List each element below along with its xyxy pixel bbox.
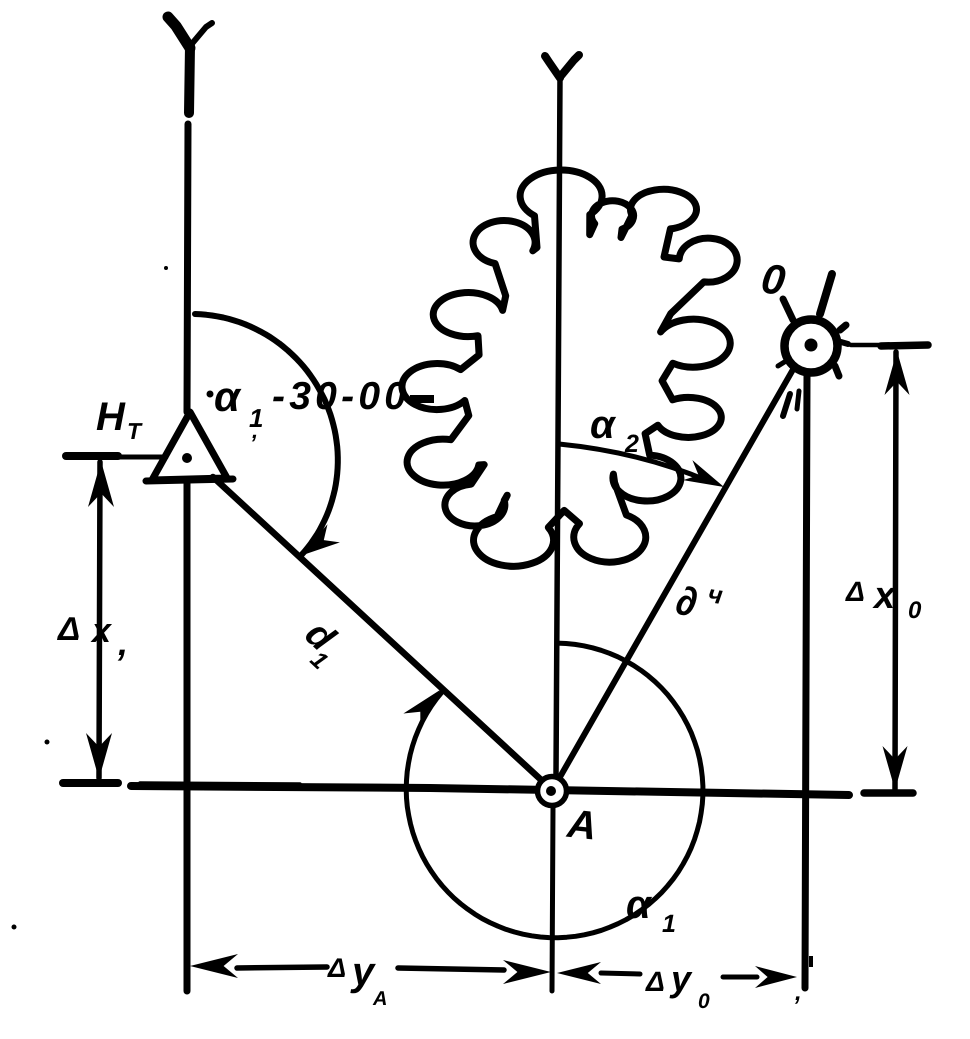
full directional angle arc alpha1 around A [406,643,703,938]
bush / shrub topographic symbol (scalloped outline) [402,170,737,566]
svg-text:x: x [90,612,113,650]
svg-text:,: , [794,979,802,1006]
angle arc alpha1=30-00 at triangle [195,314,338,556]
vertical line below landmark O [805,375,807,988]
dy_A left arrow [190,954,238,978]
angle arc alpha2 at A [559,444,708,481]
alpha1 big arc arrowhead [403,690,440,729]
tick line from dx_p to triangle level [118,455,166,460]
tree twigs [820,274,832,314]
dx_o up arrow [885,351,910,395]
dx_o down arrow [883,746,908,790]
alpha2 arc arrowhead [683,460,724,487]
stray scan specks [12,925,17,930]
svg-text:0: 0 [908,597,922,624]
baseline left tick (dx_p end) [63,779,118,787]
baseline double-stroke patch [140,783,300,784]
dx_p top tick [66,452,118,460]
dimension dy_A horizontal line [237,967,327,968]
dimension dy_o horizontal line [601,973,640,974]
left coordinate grid line (vertical) [189,46,190,113]
svg-text:,: , [251,418,258,443]
left line north fork arrow [168,17,190,48]
svg-text:0: 0 [698,990,710,1013]
svg-text:α: α [626,883,653,927]
svg-text:α: α [214,373,242,420]
svg-text:y: y [669,958,693,999]
svg-text:T: T [127,418,143,444]
svg-text:,: , [117,622,128,663]
horizontal baseline through A [131,786,849,795]
svg-text:x: x [872,575,897,617]
svg-text:Δ: Δ [645,966,665,997]
svg-text:Δ: Δ [56,610,80,647]
dimension dx_o vertical line [895,352,896,789]
dx_p up arrow [88,461,114,507]
svg-text:A: A [564,802,598,849]
triangle center dot [182,453,192,463]
svg-text:2: 2 [624,430,639,458]
tick link from O to dx_o [851,343,879,348]
alpha1 arc arrowhead [301,524,340,556]
survey station triangle H_T [152,412,227,480]
svg-text:Δ: Δ [845,576,865,607]
dx_o top tick [881,345,928,346]
center line north fork arrow [545,56,560,78]
center coordinate grid line through point A [556,76,560,775]
svg-text:α: α [590,403,617,447]
svg-text:A: A [372,988,387,1010]
dy_o right arrow [755,966,797,988]
dy_o left arrow [557,962,601,984]
svg-text:Δ: Δ [327,953,346,983]
svg-text:H: H [96,395,126,439]
point A: circle with dot [538,777,567,806]
dy_A right arrow [503,960,551,984]
dimension dx_p vertical line [99,462,100,778]
landmark tree symbol O: circle with dot [785,320,838,373]
line d2 from A to landmark O [552,366,795,791]
baseline right tick (dx_o end) [864,789,913,797]
dx_p down arrow [86,733,112,779]
svg-text:1: 1 [662,910,676,938]
line d1 from A to triangle [213,477,551,789]
